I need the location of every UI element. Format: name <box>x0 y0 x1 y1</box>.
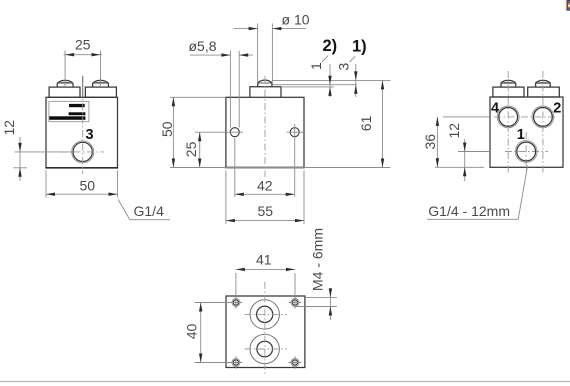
svg-text:2: 2 <box>553 101 561 117</box>
svg-text:12: 12 <box>1 120 17 136</box>
bolt left block right view <box>493 80 524 97</box>
svg-text:25: 25 <box>75 37 91 53</box>
corner hole TL <box>230 296 243 309</box>
leader G1/4 <box>118 200 170 220</box>
bolt right block right view <box>528 80 560 97</box>
port 3 circle <box>72 141 94 163</box>
svg-text:3: 3 <box>336 63 352 71</box>
dim 50 middle <box>159 97 226 167</box>
svg-text:ø 10: ø 10 <box>282 12 310 28</box>
svg-text:1: 1 <box>517 127 525 143</box>
body left view <box>45 97 118 168</box>
svg-text:4: 4 <box>491 101 499 117</box>
dim 40 <box>183 303 231 363</box>
leader G1/4 - 12mm <box>427 166 528 220</box>
bolt right block <box>85 80 116 97</box>
svg-text:61: 61 <box>358 115 374 131</box>
corner hole BR <box>289 356 302 369</box>
dim 25 top <box>64 37 103 88</box>
dim diameter 5,8 <box>189 38 254 128</box>
centerlines right view <box>494 71 557 173</box>
svg-text:G1/4 - 12mm: G1/4 - 12mm <box>428 203 510 219</box>
svg-text:M4 - 6mm: M4 - 6mm <box>310 228 326 291</box>
dim 50 bottom left view <box>46 171 118 198</box>
svg-text:25: 25 <box>183 141 199 157</box>
dim diameter 10 <box>233 12 309 83</box>
switch lines right <box>272 80 390 87</box>
svg-text:12: 12 <box>446 123 462 139</box>
centerline bottom view vertical <box>264 282 266 375</box>
port 4 circle <box>497 106 519 128</box>
big hole top <box>245 300 288 329</box>
centerline horizontal port 3 <box>60 151 104 153</box>
centerline vertical left view <box>82 76 84 174</box>
bottom rule <box>0 381 570 383</box>
dim 61 <box>358 80 384 167</box>
collar <box>250 87 281 98</box>
dim 41 <box>236 251 295 301</box>
svg-text:50: 50 <box>80 178 96 194</box>
small hole left <box>227 128 244 137</box>
dim M4 - 6mm <box>295 228 337 320</box>
clipped corner icon top-right <box>566 0 570 11</box>
corner hole TR <box>289 296 302 309</box>
sticker label <box>49 101 89 121</box>
plate bottom view <box>226 296 305 368</box>
dim 3 stroke <box>336 56 358 97</box>
bolt left block <box>49 80 80 97</box>
plunger dome <box>258 80 273 87</box>
centerline middle body <box>264 76 266 177</box>
dim 55 <box>226 171 304 225</box>
port 2 circle <box>532 106 554 128</box>
bottom extension line long <box>170 167 391 169</box>
svg-text:ø5,8: ø5,8 <box>189 38 217 54</box>
svg-text:1): 1) <box>352 37 367 55</box>
big hole bottom <box>245 334 288 363</box>
svg-text:41: 41 <box>256 251 272 267</box>
svg-text:50: 50 <box>159 121 175 137</box>
dim 36 <box>422 117 490 167</box>
svg-text:36: 36 <box>422 134 438 150</box>
body centerline gap segment between bolts <box>82 76 84 97</box>
svg-text:40: 40 <box>183 324 199 340</box>
svg-text:G1/4: G1/4 <box>134 203 165 219</box>
svg-text:1: 1 <box>308 62 324 70</box>
dim 12 left <box>1 120 72 181</box>
svg-text:3: 3 <box>86 127 94 143</box>
dim 25 middle <box>183 132 227 167</box>
svg-text:42: 42 <box>257 178 273 194</box>
svg-text:2): 2) <box>323 37 338 55</box>
dim 1 stroke <box>308 56 332 97</box>
small hole right <box>287 128 304 137</box>
body middle view <box>226 97 304 167</box>
corner hole BL <box>230 356 243 369</box>
svg-text:55: 55 <box>258 203 274 219</box>
dim 12 right view <box>446 123 490 181</box>
dim 42 <box>235 124 295 197</box>
body right view <box>490 97 563 167</box>
port 1 circle <box>515 141 537 163</box>
